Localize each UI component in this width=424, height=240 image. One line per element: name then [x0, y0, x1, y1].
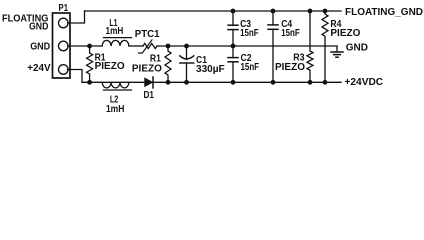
capacitor C4 [268, 11, 278, 82]
resistor R3 [307, 11, 313, 82]
inductor L2 [102, 82, 131, 90]
inductor L1 labels [106, 18, 124, 37]
resistor R1 (second, after PTC1) [165, 46, 171, 82]
wire top rail [85, 10, 342, 12]
ground (earth symbol on GND rail) [331, 46, 343, 57]
svg-text:+24V: +24V [27, 63, 51, 74]
capacitor C1 labels [196, 55, 225, 75]
junction node C4 bottom [271, 80, 276, 85]
thermistor PTC1 [139, 40, 158, 53]
junction node PTC1/R1 top [166, 44, 171, 49]
junction node R4 top [323, 9, 328, 14]
junction node R1-left bottom [87, 80, 92, 85]
connector P1 [53, 13, 71, 78]
svg-text:D1: D1 [143, 90, 154, 101]
resistor R4 labels [330, 19, 360, 39]
junction node R3 bottom [308, 80, 313, 85]
svg-text:PIEZO: PIEZO [275, 62, 305, 73]
wire middle rail (L1 to PTC1) [129, 45, 143, 47]
svg-text:GND: GND [30, 41, 50, 52]
wire middle rail (PTC1 to ground, right) [157, 45, 337, 47]
svg-text:PIEZO: PIEZO [95, 61, 125, 72]
svg-text:PIEZO: PIEZO [330, 28, 360, 39]
svg-text:1mH: 1mH [106, 26, 124, 37]
junction node R1-left top [87, 44, 92, 49]
junction node C1 top [184, 44, 189, 49]
junction node C2 bottom [231, 80, 236, 85]
resistor R1 (left) labels [95, 52, 125, 72]
capacitor C4 labels [281, 19, 300, 39]
svg-text:15nF: 15nF [241, 62, 260, 73]
svg-text:330µF: 330µF [196, 64, 225, 75]
resistor R4 [322, 11, 328, 82]
resistor R1 (second) labels [132, 53, 162, 74]
svg-text:15nF: 15nF [281, 28, 300, 39]
svg-text:GND: GND [346, 43, 368, 54]
junction node R1-second bottom [166, 80, 171, 85]
svg-text:GND: GND [29, 21, 48, 32]
svg-text:PIEZO: PIEZO [132, 63, 162, 74]
wire pin3 +24V down to bottom rail [68, 70, 90, 83]
capacitor C2 labels [241, 53, 260, 73]
net label FLOATING GND (left pin 1) [2, 13, 49, 32]
svg-text:PTC1: PTC1 [135, 29, 160, 40]
wire pin1 to top rail [68, 11, 85, 23]
junction node R4 bottom [323, 80, 328, 85]
svg-text:15nF: 15nF [240, 28, 259, 39]
junction node C4 top [271, 9, 276, 14]
inductor L2 labels [106, 94, 125, 115]
wire bottom rail [90, 81, 341, 83]
svg-text:FLOATING_GND: FLOATING_GND [345, 7, 423, 18]
junction node C1 bottom [184, 80, 189, 85]
diode D1 [145, 77, 153, 88]
junction node R3 top [308, 9, 313, 14]
capacitor C3 labels [240, 19, 259, 39]
resistor R1 (left, at GND input) [87, 46, 93, 82]
capacitor C1 (polarized 330uF) [180, 46, 194, 82]
capacitor C2 [228, 46, 238, 82]
svg-text:1mH: 1mH [106, 104, 125, 115]
resistor R3 labels [275, 52, 305, 73]
svg-text:+24VDC: +24VDC [345, 77, 384, 88]
inductor L1 [102, 38, 131, 46]
svg-text:P1: P1 [59, 3, 69, 14]
wire middle rail (pin2 to L1) [68, 45, 102, 47]
junction node C3/C2 middle [231, 44, 236, 49]
junction node C3 top [231, 9, 236, 14]
capacitor C3 [228, 11, 238, 46]
